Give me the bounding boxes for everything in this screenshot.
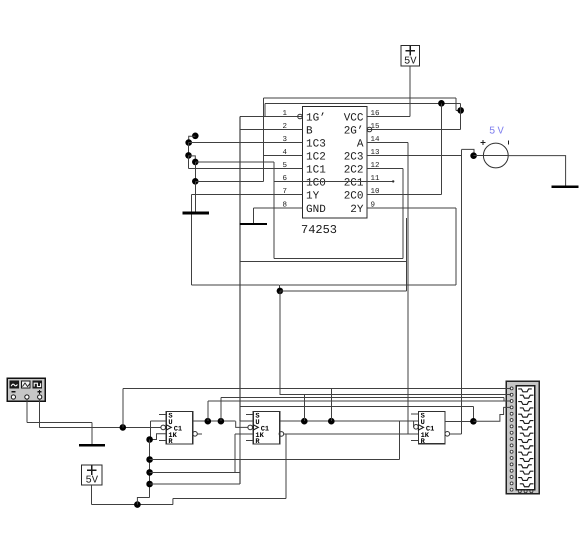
wire D1 hook (189, 136, 196, 142)
battery V1 +5V box (401, 46, 420, 67)
wire V2 down (91, 485, 93, 505)
svg-text:2Y: 2Y (350, 204, 364, 216)
junction dot1 net-EN (438, 100, 445, 107)
wire U3A Qbar to U4A 1K (286, 433, 419, 435)
wire U3A 1K jog (235, 433, 253, 435)
XFG1 terminal common (25, 395, 29, 399)
wire bus B2 jog to connector pin3 (503, 398, 505, 402)
wire JK tie column (149, 440, 151, 498)
wire U1 pin6-pin11 through chip (274, 181, 393, 183)
wire U3A 1J drop (239, 421, 241, 459)
wire U1 pin2 run (240, 129, 278, 131)
junction dot tie row3 (146, 481, 153, 488)
wire D3 hook to D4 (189, 156, 196, 162)
XFG1 sine button (10, 381, 19, 388)
junction dot QB-2 (328, 418, 335, 425)
U1 left pin label B (pin 2) (306, 126, 313, 138)
wire U2A Q out (193, 420, 236, 422)
U1 pin 10 stub (367, 194, 392, 196)
U1 pin 12 number (371, 161, 380, 170)
XFG1 terminal plus (38, 395, 42, 399)
wire QB riser 2 to bus B0 (330, 388, 332, 421)
wire net-B branch drop to FF3 Q dot (472, 407, 474, 422)
wire V2 bottom run (92, 504, 173, 506)
svg-text:B: B (306, 126, 313, 138)
U1 pin 8 number (282, 200, 287, 209)
wire V2 rail to U3A Qbar (173, 497, 286, 499)
wire to GND1 (91, 423, 93, 446)
U1 pin 14 stub (367, 142, 392, 144)
wire net-EN drop to pin10 (440, 103, 442, 194)
wire pin8 drop (252, 208, 254, 224)
wire net-EN run A jog down (455, 98, 457, 110)
U1 pin 6 stub (278, 181, 303, 183)
U1 pin 15 number (371, 123, 381, 131)
U1 pin 4 number (282, 149, 287, 157)
svg-text:2C0: 2C0 (344, 191, 364, 203)
svg-text:10: 10 (371, 187, 381, 196)
ground GND1 bar (79, 444, 105, 447)
wire D4 drop (273, 162, 275, 259)
XFG1 triangle button (21, 381, 30, 388)
U1 part label 74253 (301, 223, 337, 237)
svg-text:1C0: 1C0 (306, 178, 326, 190)
U2A R stub (159, 440, 166, 442)
U1 pin 11 stub (367, 181, 392, 183)
wire QC staircase to connector pin4 (473, 407, 510, 421)
svg-text:16: 16 (371, 109, 381, 118)
wire net-EN top run B (265, 102, 461, 104)
wire U2A 1J input (150, 420, 166, 422)
XFG1 plus mark (38, 390, 42, 394)
wire U3A Q to U4A (280, 420, 414, 422)
U1 pin 9 stub (367, 207, 392, 209)
XFG1 square button (33, 381, 42, 388)
wire clock riser (122, 388, 124, 427)
U1 right pin label 2C0 (pin 10) (344, 191, 364, 203)
svg-text:3: 3 (282, 135, 287, 144)
wire net-EN drop to pin15 (460, 103, 462, 129)
wire stub junction horizontal (240, 223, 267, 225)
junction dot QB-1 (301, 418, 308, 425)
U1 right pin label 2C2 (pin 12) (344, 165, 364, 177)
wire pin9 drop (455, 208, 457, 285)
U1 pin 14 number (371, 136, 381, 144)
flip-flop U3A JK body (253, 412, 280, 447)
U1 pin 12 stub (367, 168, 392, 170)
wire GND2 jog down (279, 285, 281, 291)
svg-text:1Y: 1Y (306, 191, 320, 203)
U3A Qbar bubble (279, 432, 284, 437)
wire U1 pin10 run (392, 194, 441, 196)
U1 right pin label 2C1 (pin 11) (344, 178, 364, 190)
U1 right pin label VCC (pin 16) (344, 113, 364, 125)
connector J1 resistor elements (518, 389, 533, 487)
wire U4A 1J drop (398, 421, 400, 459)
U1 pin 1 number (282, 110, 287, 118)
svg-text:2C1: 2C1 (344, 178, 364, 190)
svg-text:1C3: 1C3 (306, 139, 326, 151)
junction dot D2 (185, 139, 192, 146)
connector J1 bottom pads (518, 490, 533, 493)
svg-text:2: 2 (282, 122, 287, 131)
wire U1 pin13 run (367, 155, 461, 157)
wire V1 to U1 VCC pin16 (409, 66, 411, 117)
U1 pin 9 number (371, 200, 376, 209)
junction dot tie row2 (146, 469, 153, 476)
wire U1 pin14 run (367, 142, 408, 144)
wire through source (483, 155, 508, 157)
svg-text:A: A (357, 139, 364, 151)
U1 left pin label GND (pin 8) (306, 204, 326, 216)
ground GND3 bar (552, 186, 579, 189)
wire net-EN pin1 horizontal (240, 116, 298, 118)
U1 pin 16 number (371, 109, 381, 118)
U2A Qbar bubble (193, 432, 198, 437)
AC-DC source VS 5V circle (483, 143, 508, 168)
wire D5 chain to ground (194, 181, 196, 211)
wire QB riser 1 to bus B1 (303, 395, 305, 422)
wire tie row1 (150, 459, 400, 461)
wire U1 pin4 run (264, 155, 278, 157)
U3A R stub (246, 440, 253, 442)
wire pin12 drop (402, 169, 404, 259)
U1 pin 15 inversion bubble (367, 127, 372, 132)
junction dot bottom rail (134, 501, 141, 508)
wire U3A Qbar drop (285, 434, 287, 499)
wire D2 to D3 vertical (188, 143, 190, 156)
U2A Qbar stub (197, 433, 202, 435)
wire net-B long vertical (239, 117, 241, 485)
U3A clock bubble (248, 425, 253, 430)
junction dot QA-1 (205, 418, 212, 425)
junction dot QA-2 (218, 418, 225, 425)
U3A Qbar stub (284, 433, 286, 435)
battery V2 plus sign (87, 466, 97, 475)
wire U2A 1K jog (150, 434, 167, 440)
U1 left pin label 1C2 (pin 4) (306, 152, 326, 164)
wire U1 pin12 run (367, 168, 403, 170)
wire D4 run right (195, 161, 273, 163)
wire bus B0 to connector pin1 (123, 387, 511, 389)
U1 pin 7 stub (278, 194, 303, 196)
wire U1 pin5 run (189, 168, 278, 170)
flip-flop U4A JK body (418, 411, 445, 446)
junction dot QC (470, 418, 477, 425)
U4A R stub (411, 440, 418, 442)
battery V2 value label 5V (85, 475, 98, 487)
U1 left pin label 1G&#8217; (pin 1) (306, 113, 326, 125)
junction dot2 net-EN (457, 107, 464, 114)
U1 left pin label 1C3 (pin 3) (306, 139, 326, 151)
battery V1 value label 5V (404, 56, 417, 68)
svg-text:VCC: VCC (344, 113, 364, 125)
U4A clock bubble (414, 425, 419, 430)
wire pin9 lower run (280, 284, 456, 286)
junction dot mid (277, 288, 284, 295)
svg-text:V: V (498, 126, 505, 138)
ground GND2 bar (182, 212, 209, 215)
U1 pin 11 number (371, 175, 381, 183)
svg-text:2C3: 2C3 (344, 152, 364, 164)
wire QA riser 2 to bus B2 (220, 398, 222, 422)
U1 pin 2 number (282, 122, 287, 131)
U4A S stub (411, 413, 418, 415)
U1 pin 16 stub (367, 116, 392, 118)
U1 pin 3 stub (278, 142, 303, 144)
junction dot D5 (192, 178, 199, 185)
connector J1 body (506, 381, 539, 494)
wire pin14 descender (407, 143, 409, 434)
U3A S stub (246, 413, 253, 415)
flip-flop U2A JK body (166, 412, 193, 447)
source minus mark (507, 141, 509, 145)
connector J1 contact pins (510, 387, 513, 491)
svg-text:5V: 5V (85, 475, 98, 487)
junction dot D4 (192, 159, 199, 166)
svg-text:8: 8 (282, 200, 287, 209)
U4A Qbar stub (450, 433, 462, 435)
svg-text:GND: GND (306, 204, 326, 216)
U1 pin 6 number (282, 174, 287, 183)
wire clock line to FF1 (40, 426, 161, 428)
wire riser B (405, 218, 407, 291)
XFG1 minus mark (12, 391, 16, 393)
U1 pin 7 number (282, 188, 287, 196)
wire bus B3 to connector pin3 (208, 400, 511, 402)
wire U4A Q out (445, 420, 473, 422)
wire GND2 run right (192, 284, 280, 286)
wire mid dot run right (280, 290, 407, 292)
svg-text:5: 5 (489, 126, 495, 138)
U1 pin 13 stub (367, 155, 392, 157)
U1 pin 13 number (371, 148, 381, 157)
U1 pin 5 number (282, 162, 287, 170)
wire U1 pin7 run (192, 194, 278, 196)
U1 right pin label 2Y (pin 9) (350, 204, 364, 216)
wire 5V source jog (462, 149, 475, 155)
svg-text:2C2: 2C2 (344, 165, 364, 177)
U2A S stub (159, 413, 166, 415)
svg-text:2G’: 2G’ (344, 126, 364, 138)
svg-text:7: 7 (282, 188, 287, 196)
wire net-EN top run A (264, 97, 456, 99)
XFG1 terminal minus (11, 395, 15, 399)
svg-text:5V: 5V (404, 56, 417, 68)
U1 left pin label 1C1 (pin 5) (306, 165, 326, 177)
pin 11 stub end dot (392, 180, 394, 182)
U1 pin 5 stub (278, 168, 303, 170)
svg-text:1G’: 1G’ (306, 113, 326, 125)
wire XFG1 common run (27, 422, 92, 424)
svg-text:74253: 74253 (301, 223, 337, 237)
wire net-B lower branch (240, 260, 407, 262)
connector J1 inner window (516, 386, 534, 490)
U1 left pin label 1C0 (pin 6) (306, 178, 326, 190)
U1 right pin label 2G&#8217; (pin 15) (344, 126, 364, 138)
svg-text:1C2: 1C2 (306, 152, 326, 164)
wire U1 pin15 run (372, 129, 461, 131)
wire tie row3 (150, 483, 240, 485)
U1 right pin label A (pin 14) (357, 139, 364, 151)
wire QA riser 1 to bus B3 (207, 401, 209, 421)
wire net-EN pin4 riser (263, 98, 265, 181)
wire U1 pin8 run (253, 207, 277, 209)
U1 pin 1 stub (278, 116, 303, 118)
wire U4A 1J riser link (399, 420, 418, 422)
wire U1 pin9 run (367, 207, 456, 209)
wire D5 run right (195, 180, 263, 182)
wire net-B to U3A 1J (240, 420, 253, 422)
source plus mark (481, 140, 486, 145)
wire net-B to FF3 branch horizontal (240, 406, 473, 408)
wire FF3 Qbar riser (461, 149, 463, 433)
wire D3 continue down (188, 155, 190, 168)
function generator XFG1 body (7, 378, 45, 401)
wire net-EN pin1 riser (264, 103, 266, 116)
wire net-EN run A jog tail (456, 109, 461, 111)
wire dot to source (474, 155, 484, 157)
wire bottom rail notch (137, 498, 149, 505)
junction dot D3 (185, 152, 192, 159)
wire D4 to D5 vertical (194, 162, 196, 181)
wire pin7 drop to ground (191, 195, 193, 212)
wire U2A Q jog to U3A clock (236, 421, 248, 427)
battery V2 +5V box (82, 465, 103, 485)
junction dot D1 (192, 133, 199, 140)
wire U3A 1K drop (234, 434, 236, 473)
wire V4 drop from mid dot (279, 291, 281, 395)
U1 pin 4 stub (278, 155, 303, 157)
svg-text:5: 5 (282, 162, 287, 170)
ground GND2 stem (191, 214, 193, 286)
battery V1 plus sign (405, 46, 415, 55)
U1 pin 1 inversion bubble (298, 114, 303, 119)
wire lower rect bottom (274, 258, 403, 260)
U4A Qbar bubble (445, 432, 450, 437)
wire source to GND3 (508, 156, 565, 186)
wire U2A 1J drop (149, 421, 151, 439)
wire bottom step up (172, 498, 174, 504)
wire U1 pin3 run (189, 142, 278, 144)
junction dot clock (120, 424, 127, 431)
U1 pin 2 stub (278, 129, 303, 131)
svg-text:1C1: 1C1 (306, 165, 326, 177)
IC U1 74253 body (302, 106, 367, 218)
junction dot at 5V source (470, 152, 477, 159)
junction dot tie row1 (146, 456, 153, 463)
wire XFG1 plus down (39, 399, 41, 427)
U2A clock bubble (161, 425, 166, 430)
wire U3A Q jog to U4A clock (413, 421, 415, 427)
wire tie row2 (150, 471, 240, 473)
U1 pin 15 stub (367, 129, 392, 131)
svg-text:4: 4 (282, 149, 287, 157)
wire bus B1 to connector pin2 (280, 394, 511, 396)
junction dot U2A JK tie (146, 436, 153, 443)
wire XFG1 common down (26, 399, 28, 422)
wire U1 pin16 VCC run (392, 116, 410, 118)
source label 5 V (489, 126, 505, 138)
U1 pin 3 number (282, 135, 287, 144)
U1 right pin label 2C3 (pin 13) (344, 152, 364, 164)
U1 pin 10 number (371, 187, 381, 196)
U1 pin 8 stub (278, 207, 303, 209)
wire bus B2 (221, 397, 504, 399)
U1 left pin label 1Y (pin 7) (306, 191, 320, 203)
